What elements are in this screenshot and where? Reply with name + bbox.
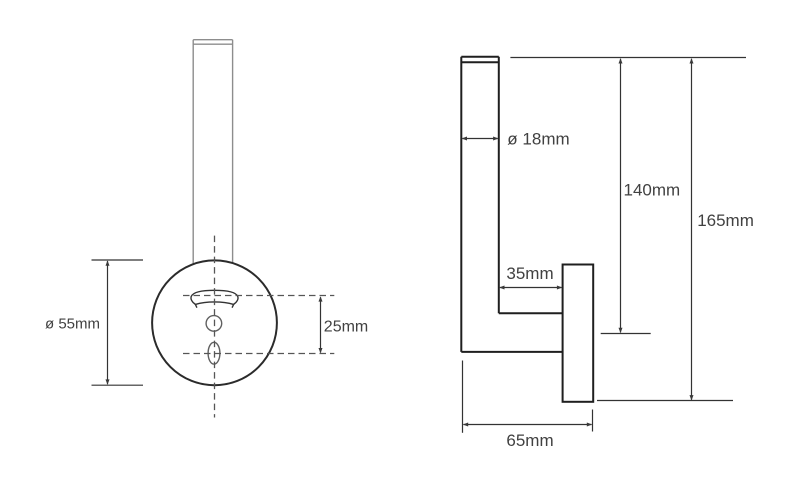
rod front view (vertical tube) (193, 40, 232, 264)
dim ø18 line with arrows (462, 137, 499, 141)
svg-text:35mm: 35mm (506, 264, 553, 283)
wall plate circle ø55 (152, 260, 277, 385)
dim ø55 extension top (92, 259, 144, 261)
rod + arm L profile (461, 57, 562, 352)
svg-text:ø 55mm: ø 55mm (45, 315, 100, 332)
dim top extension line (510, 57, 746, 59)
centerline vertical dashed (214, 236, 216, 418)
svg-text:165mm: 165mm (697, 211, 754, 230)
svg-text:25mm: 25mm (324, 319, 368, 336)
dim ø55 extension bottom (92, 384, 144, 386)
screw slot oval (208, 342, 220, 364)
svg-text:65mm: 65mm (506, 431, 553, 450)
dim 65mm extension tick left (462, 361, 464, 433)
dim 165mm line with arrows (690, 58, 694, 400)
dim 25mm line with arrows (319, 296, 323, 353)
dim 65mm line with arrows (463, 423, 592, 427)
dim ø55 line with arrows (106, 260, 110, 384)
centerline horizontal dashed upper (183, 295, 334, 297)
svg-text:140mm: 140mm (624, 180, 681, 199)
screw hole circle (206, 316, 222, 332)
centerline horizontal dashed lower (183, 353, 334, 355)
dim 140mm bottom extension (601, 333, 651, 335)
dim 65mm extension tick right (592, 410, 594, 432)
dim 165mm bottom extension (597, 400, 733, 402)
svg-text:ø 18mm: ø 18mm (507, 130, 569, 149)
dim 35mm line with arrows (499, 286, 562, 290)
dim 140mm line with arrows (619, 58, 623, 333)
curved slot detail (191, 290, 238, 307)
wall plate side profile (563, 265, 594, 402)
